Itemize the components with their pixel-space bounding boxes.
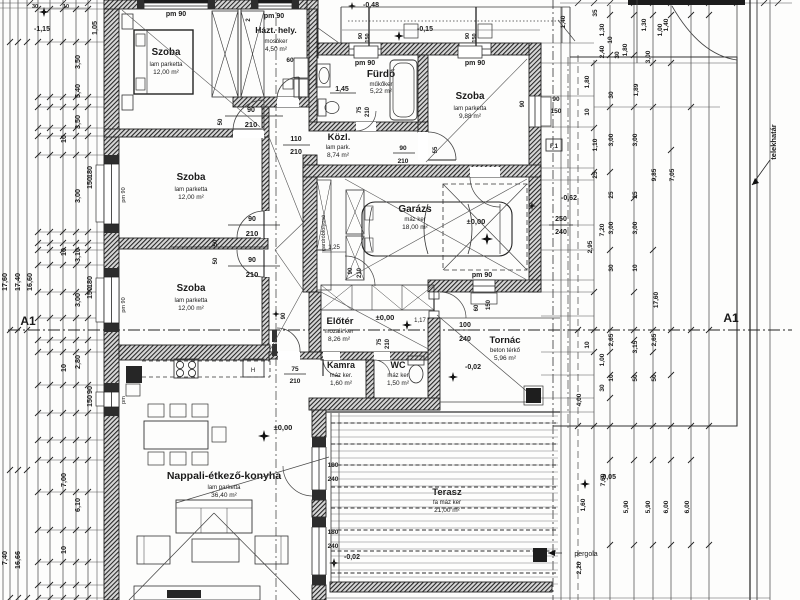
window szoba3 left 180-150 [104, 277, 119, 323]
svg-text:75: 75 [357, 106, 363, 113]
svg-text:12,00 m²: 12,00 m² [178, 305, 204, 312]
svg-text:150: 150 [365, 33, 371, 42]
rot dims szoba4 window [465, 33, 478, 43]
level +-0,00 garazs [467, 217, 493, 245]
label gardrobfolyoso [321, 215, 327, 251]
door corridor-kitchen [272, 310, 300, 360]
svg-text:110: 110 [290, 136, 301, 143]
axis line vertical right [552, 0, 554, 600]
svg-text:150: 150 [85, 177, 94, 189]
svg-text:7,20: 7,20 [599, 223, 606, 236]
svg-text:150: 150 [551, 108, 562, 115]
tv stand [134, 586, 260, 600]
dimension numbers left [0, 21, 99, 569]
door terrace 180-240 lower [312, 517, 326, 585]
wall living east mid [312, 500, 326, 517]
svg-text:3,15: 3,15 [632, 340, 639, 353]
dining chairs bottom [148, 452, 208, 465]
dimension ticks right [591, 12, 712, 548]
kitchen counter dashed [142, 361, 270, 377]
axis line vertical x276 [275, 0, 277, 600]
svg-text:10: 10 [59, 364, 68, 372]
svg-text:50: 50 [218, 118, 224, 125]
svg-text:2,95: 2,95 [587, 240, 594, 253]
svg-text:210: 210 [290, 149, 302, 156]
room label szoba3 [174, 283, 208, 312]
svg-text:30: 30 [599, 384, 606, 392]
svg-text:210: 210 [246, 229, 259, 238]
svg-text:210: 210 [245, 120, 258, 129]
svg-text:2,65: 2,65 [608, 333, 615, 346]
pm labels left windows [121, 187, 127, 403]
sill box garage window [471, 293, 497, 304]
svg-text:pm 90: pm 90 [472, 272, 492, 279]
svg-text:1,00: 1,00 [599, 353, 606, 366]
wall corridor south [269, 352, 321, 359]
svg-text:Garázs: Garázs [398, 204, 432, 215]
svg-text:10: 10 [632, 264, 639, 272]
door hazthely [277, 57, 299, 107]
rot dims furdo window [358, 33, 371, 43]
svg-text:60: 60 [286, 57, 294, 64]
svg-text:Nappali-étkező-konyha: Nappali-étkező-konyha [167, 470, 282, 482]
svg-text:25: 25 [608, 191, 615, 199]
room label szoba1 [149, 47, 183, 76]
svg-text:150: 150 [85, 287, 94, 299]
svg-text:2,65: 2,65 [651, 333, 658, 346]
svg-text:16,66: 16,66 [13, 551, 22, 569]
svg-text:10: 10 [607, 36, 614, 44]
svg-text:F.1: F.1 [550, 144, 559, 150]
svg-text:10: 10 [584, 108, 591, 116]
svg-text:A1: A1 [723, 311, 739, 325]
svg-text:3,00: 3,00 [632, 133, 639, 146]
svg-text:pm 90: pm 90 [121, 297, 127, 312]
garage clearance dashed [443, 184, 527, 270]
level -0,02 terasz2 [329, 554, 360, 568]
window szoba4 north 90-150 [459, 43, 491, 55]
eaves line right 2 [569, 7, 571, 600]
garage diagonals [345, 179, 527, 280]
svg-text:10: 10 [59, 546, 68, 554]
wall living east upper [312, 410, 326, 437]
bed szoba1 [122, 14, 193, 110]
svg-text:90: 90 [85, 386, 94, 394]
svg-text:90: 90 [248, 257, 256, 264]
front door [428, 292, 440, 318]
toilet furdo [318, 99, 339, 116]
wall furdo east lower [418, 122, 428, 132]
svg-text:Fürdő: Fürdő [367, 69, 395, 80]
wall wc east [428, 318, 440, 398]
svg-text:lam park.: lam park. [326, 145, 351, 151]
svg-text:7,00: 7,00 [59, 473, 68, 487]
closet row eloter [321, 285, 434, 310]
dimension chain lines right side [594, 5, 709, 600]
wall right exterior [529, 43, 541, 292]
svg-text:25: 25 [592, 171, 599, 179]
svg-text:WC: WC [391, 360, 406, 370]
level mark -1,15 [34, 7, 50, 33]
svg-text:180: 180 [85, 276, 94, 288]
svg-text:3,00: 3,00 [645, 50, 652, 63]
setback rectangle [553, 57, 737, 426]
svg-text:30: 30 [608, 91, 615, 99]
dining chair right [212, 427, 226, 442]
svg-text:10: 10 [584, 341, 591, 349]
svg-text:5,22 m²: 5,22 m² [370, 88, 393, 95]
dimension ticks left [7, 6, 91, 600]
svg-text:18,00 m²: 18,00 m² [402, 224, 428, 231]
dining table [144, 421, 208, 449]
window labels szoba4 right [520, 96, 562, 115]
svg-text:lam parketta: lam parketta [453, 106, 487, 112]
svg-text:6,00: 6,00 [663, 500, 670, 513]
svg-text:240: 240 [328, 476, 339, 483]
ridge lines nappali [129, 457, 329, 600]
svg-text:lam parketta: lam parketta [174, 298, 208, 304]
label 75-210 kamra [284, 366, 306, 385]
svg-text:2,40: 2,40 [599, 45, 606, 58]
svg-text:17,40: 17,40 [13, 273, 22, 291]
sill box szoba4 window [458, 46, 482, 58]
wall closet divider [238, 9, 241, 97]
dimension chain lines left side [3, 0, 88, 600]
kitchen stove [174, 359, 198, 378]
tornac column [524, 386, 543, 405]
door garage from wardrobe [345, 256, 375, 286]
label 75-210 wc [377, 338, 391, 349]
svg-text:-0,62: -0,62 [561, 195, 577, 202]
svg-text:beton térkő: beton térkő [490, 348, 521, 354]
svg-text:3,10: 3,10 [73, 248, 82, 262]
svg-text:50: 50 [632, 374, 639, 382]
door nappali arc upper [283, 466, 312, 496]
room label tornac [490, 335, 521, 362]
plot line x770 [769, 0, 771, 600]
room label eloter [324, 316, 353, 343]
door szoba2 [237, 211, 270, 238]
svg-text:4,50 m²: 4,50 m² [265, 46, 288, 53]
svg-text:50: 50 [213, 239, 219, 246]
tornac outline [440, 318, 560, 402]
svg-text:mozaik ker: mozaik ker [324, 329, 353, 335]
extension lines right [541, 43, 737, 412]
svg-text:Szoba: Szoba [177, 172, 206, 183]
svg-text:8,74 m²: 8,74 m² [327, 152, 350, 159]
svg-text:10: 10 [608, 374, 615, 382]
gate swing arc [672, 5, 737, 60]
room label nappali [167, 470, 282, 499]
door szoba1 [233, 100, 264, 138]
svg-text:30: 30 [614, 51, 621, 59]
level -0,62 right [528, 195, 577, 210]
wall garage south [428, 280, 541, 292]
level +-0,00 nappali [258, 423, 292, 442]
window mullion szoba4 [475, 7, 477, 55]
door entry main [440, 292, 466, 318]
svg-text:150: 150 [472, 33, 478, 42]
svg-text:H: H [251, 368, 255, 374]
svg-text:210: 210 [385, 338, 391, 349]
svg-text:3,00: 3,00 [608, 221, 615, 234]
bathtub [390, 60, 417, 120]
top dim line [342, 29, 540, 31]
window nappali left 90-150 [104, 392, 119, 407]
room label furdo [367, 69, 395, 95]
svg-text:150: 150 [486, 299, 492, 310]
svg-text:1,30: 1,30 [599, 23, 606, 36]
labels 180-240 lower [328, 529, 339, 550]
door garage arc north [470, 167, 500, 207]
gate post line [636, 0, 638, 63]
svg-text:6,10: 6,10 [73, 498, 82, 512]
window furdo north 90-150 [349, 43, 381, 55]
door szoba3 [237, 250, 270, 277]
room label hazthely [255, 25, 296, 53]
svg-text:telekhatár: telekhatár [769, 124, 778, 160]
svg-text:±0,00: ±0,00 [274, 423, 293, 432]
wall living north [119, 345, 270, 360]
svg-text:-0,02: -0,02 [465, 364, 481, 371]
svg-text:fa máz ker: fa máz ker [433, 500, 461, 506]
svg-text:5,90: 5,90 [623, 500, 630, 513]
wardrobe closet 1 [212, 11, 238, 97]
dining chairs top [148, 404, 208, 417]
sink furdo [316, 64, 330, 87]
bed szoba3 [0, 0, 1, 1]
room label wc [387, 360, 410, 387]
level -0,05 terasz [580, 474, 616, 489]
svg-text:3,00: 3,00 [73, 189, 82, 203]
labels 180-240 upper [328, 462, 339, 483]
svg-text:1,80: 1,80 [622, 43, 629, 56]
svg-text:210: 210 [398, 158, 409, 165]
svg-text:50: 50 [213, 257, 219, 264]
window labels garage window [474, 299, 492, 311]
label 1,25 [322, 245, 346, 252]
door szoba4 from kozl [393, 132, 456, 165]
label 60 150 tornac [0, 0, 1, 1]
svg-text:180: 180 [85, 166, 94, 178]
hazthely counter [283, 58, 308, 97]
window label pm 90 hazthely [246, 13, 284, 22]
sill boxes left wall [96, 165, 104, 406]
svg-text:17,60: 17,60 [653, 291, 660, 308]
wall hazthely east [309, 9, 317, 122]
svg-text:17,60: 17,60 [0, 273, 9, 291]
wall living east bottom [312, 585, 326, 600]
svg-text:2,80: 2,80 [73, 355, 82, 369]
svg-text:210: 210 [246, 270, 259, 279]
window szoba1 top pm90 [137, 0, 215, 9]
north fence bar [628, 0, 745, 5]
label 110-210 kozl [283, 136, 310, 156]
terrace corner posts [404, 24, 492, 38]
svg-text:1,80: 1,80 [584, 75, 591, 88]
svg-text:1,60 m²: 1,60 m² [330, 380, 353, 387]
svg-text:12,00 m²: 12,00 m² [153, 69, 179, 76]
room label kamra [327, 360, 356, 387]
svg-text:5,90: 5,90 [645, 500, 652, 513]
wardrobe closet 2 [241, 11, 264, 97]
svg-text:1,50 m²: 1,50 m² [387, 380, 410, 387]
pergola post [533, 548, 547, 562]
dim labels szoba1 door [218, 107, 283, 129]
sofa [176, 500, 252, 533]
svg-text:pm 90: pm 90 [355, 60, 375, 67]
svg-text:1,30: 1,30 [641, 18, 648, 31]
svg-text:5,96 m²: 5,96 m² [494, 355, 517, 362]
svg-text:Kamra: Kamra [327, 360, 356, 370]
armchair right [255, 536, 288, 564]
terrace south beam [330, 582, 552, 592]
window mullion furdo [368, 7, 370, 55]
terrace edge left [331, 413, 339, 585]
door wc [374, 352, 390, 376]
dim labels szoba2 door [213, 216, 280, 246]
window garage south 60-150 [473, 280, 495, 292]
axis line vertical right 2 [567, 57, 569, 430]
level -0,48 top [348, 2, 379, 10]
toilet wc [408, 356, 424, 383]
svg-text:12,00 m²: 12,00 m² [178, 194, 204, 201]
svg-text:pm 90: pm 90 [121, 187, 127, 202]
svg-text:1,25: 1,25 [328, 245, 340, 251]
window szoba4 right 90-150 [529, 96, 541, 127]
svg-text:150: 150 [85, 395, 94, 407]
window label pm 90 furdo [355, 60, 375, 67]
svg-text:90: 90 [281, 312, 287, 319]
diagonal eloter [321, 292, 434, 352]
closet wardrobe corridor [317, 180, 331, 290]
bed szoba4 [0, 0, 1, 1]
svg-text:90: 90 [248, 216, 256, 223]
diagonal corridor [269, 137, 303, 350]
svg-text:lam parketta: lam parketta [149, 62, 183, 68]
window label pm 90 szoba4 [465, 60, 485, 67]
wall pantry block south [309, 398, 440, 410]
svg-text:±0,00: ±0,00 [376, 313, 395, 322]
svg-text:10: 10 [59, 248, 68, 256]
svg-text:50: 50 [651, 374, 658, 382]
svg-text:90: 90 [552, 96, 560, 103]
level -0,15 terrace [394, 26, 433, 41]
svg-text:35: 35 [592, 9, 599, 17]
room label terasz [432, 487, 462, 514]
wall top-left exterior [104, 0, 318, 9]
svg-text:pm 90: pm 90 [166, 11, 186, 18]
car garazs [362, 202, 512, 256]
room label szoba4 [453, 91, 487, 120]
svg-text:1,89: 1,89 [633, 83, 640, 96]
svg-text:60: 60 [474, 304, 480, 311]
svg-text:75: 75 [291, 366, 299, 373]
svg-text:A1: A1 [20, 314, 36, 328]
door kamra [323, 352, 340, 376]
svg-text:gardróbfolyosó: gardróbfolyosó [321, 215, 327, 251]
svg-text:1,40: 1,40 [663, 18, 670, 31]
window szoba2 left 180-150 [104, 164, 119, 224]
svg-text:240: 240 [555, 229, 567, 236]
plot line x750 [749, 0, 751, 600]
svg-text:16,60: 16,60 [25, 273, 34, 291]
eaves line right 1 [560, 7, 562, 600]
plot line x757 [756, 0, 758, 600]
svg-text:7,40: 7,40 [0, 551, 9, 565]
bed szoba2 [0, 0, 1, 1]
coffee table [192, 539, 239, 562]
telekhatar label [752, 124, 778, 185]
dim labels szoba3 door [170, 247, 280, 279]
window hazthely top pm90 [251, 0, 299, 9]
labels 100-240 entry [414, 318, 479, 343]
top dimension row left [0, 0, 104, 10]
label A1 left [20, 314, 36, 328]
wall northeast riser [307, 0, 318, 58]
svg-text:30: 30 [32, 4, 38, 10]
wall szoba1 south [104, 129, 233, 137]
svg-text:1,45: 1,45 [335, 86, 349, 93]
wall rooms east [262, 97, 269, 352]
diagonal szoba4 [426, 59, 527, 162]
svg-text:pm: pm [121, 396, 127, 404]
jamb caps left wall [104, 155, 119, 416]
svg-text:mosóker: mosóker [264, 39, 287, 45]
svg-text:3,00: 3,00 [73, 293, 82, 307]
room label garazs [398, 204, 432, 231]
marker F.1 [546, 139, 562, 151]
svg-text:4,00: 4,00 [576, 393, 583, 406]
svg-text:Szoba: Szoba [177, 283, 206, 294]
svg-text:lam parketta: lam parketta [174, 187, 208, 193]
dashed line x578 [577, 55, 579, 600]
window label pm 90 szoba1 [166, 11, 186, 18]
armchair left [137, 536, 170, 564]
wall furdo south [309, 122, 428, 131]
north terrace outline [318, 7, 575, 43]
svg-text:Előtér: Előtér [327, 316, 354, 327]
svg-text:7,05: 7,05 [669, 168, 676, 181]
wall hazthely south [233, 97, 310, 107]
eaves line left [96, 0, 98, 600]
wall north right block [318, 43, 541, 55]
kitchen corner unit dark [126, 366, 142, 396]
extension lines left [38, 9, 104, 598]
svg-text:3,00: 3,00 [632, 221, 639, 234]
svg-text:1,60: 1,60 [580, 498, 587, 511]
svg-text:90: 90 [465, 33, 471, 39]
svg-text:6,00: 6,00 [684, 500, 691, 513]
diagonal tornac [437, 315, 530, 394]
svg-text:Közl.: Közl. [328, 132, 351, 143]
svg-text:2,20: 2,20 [576, 561, 583, 574]
svg-text:8,26 m²: 8,26 m² [328, 336, 351, 343]
svg-text:5,40: 5,40 [73, 84, 82, 98]
svg-text:lam parketta: lam parketta [207, 485, 241, 491]
wall garage north [303, 165, 541, 177]
svg-text:Terasz: Terasz [432, 487, 462, 498]
svg-text:-0,02: -0,02 [344, 554, 360, 561]
svg-text:máz ker: máz ker [387, 373, 408, 379]
terrace north edge [326, 411, 560, 413]
garage closets [346, 190, 364, 280]
wall szoba2 south [119, 238, 268, 249]
svg-text:3,50: 3,50 [73, 115, 82, 129]
svg-text:30: 30 [608, 264, 615, 272]
dimension numbers right [560, 9, 691, 574]
wall wardrobe east [303, 155, 317, 292]
